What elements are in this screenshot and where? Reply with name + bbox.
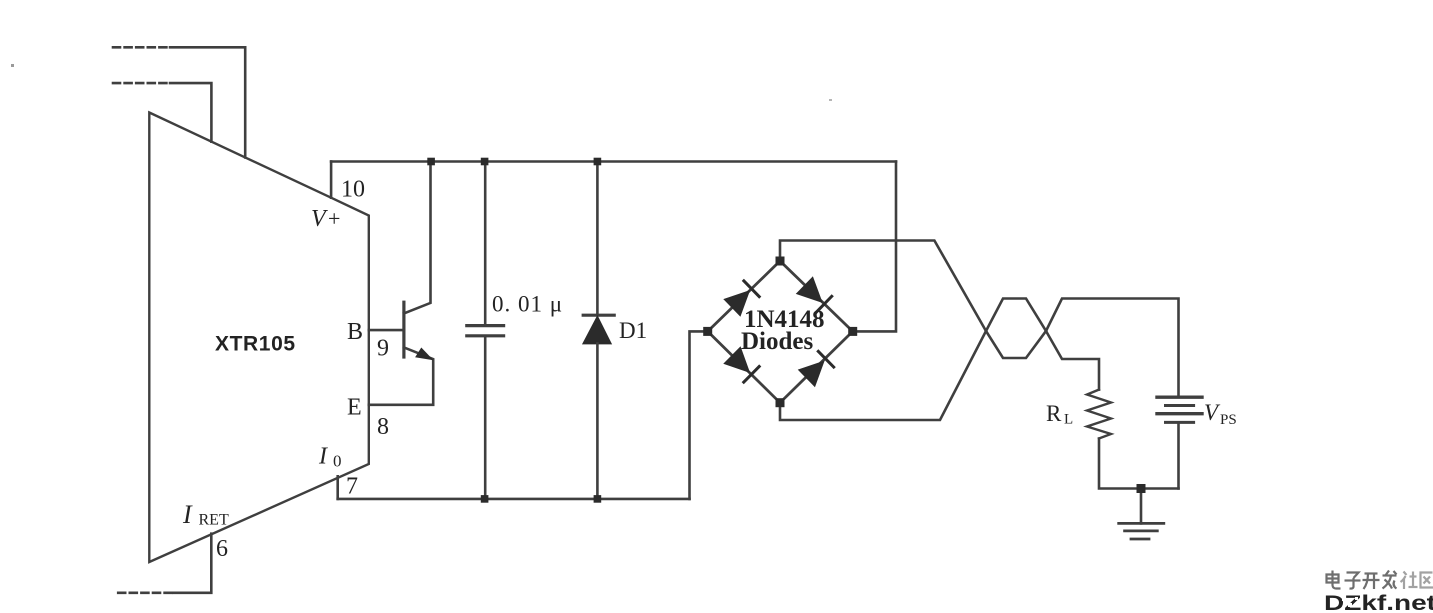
svg-text:10: 10 bbox=[341, 177, 365, 203]
svg-text:R: R bbox=[1046, 401, 1062, 426]
wire pin 6 lead down bbox=[174, 534, 212, 593]
bridge diode BR4 lower-right bbox=[798, 350, 835, 387]
capacitor C1 lower lead bbox=[484, 336, 487, 499]
wire pin 7 lead to bottom rail bbox=[336, 476, 339, 499]
glyph kai bbox=[1363, 574, 1380, 590]
svg-text:B: B bbox=[347, 319, 363, 345]
svg-text:0: 0 bbox=[333, 452, 342, 471]
ground stem bbox=[1140, 489, 1143, 524]
svg-text:0. 01 μ: 0. 01 μ bbox=[492, 292, 563, 317]
wire twist exit lower to load resistor bbox=[1046, 331, 1099, 390]
glyph she bbox=[1401, 572, 1418, 590]
bridge diamond edges bbox=[708, 261, 853, 403]
node junction collector/rail bbox=[427, 158, 435, 166]
wire sensor lead 2 solid to IC top edge bbox=[170, 83, 211, 142]
svg-text:9: 9 bbox=[377, 336, 389, 362]
wire twist exit upper to battery top bbox=[1046, 299, 1179, 398]
wire battery bottom lead bbox=[1177, 422, 1180, 488]
svg-text:I: I bbox=[182, 500, 193, 529]
node bridge right bbox=[848, 327, 857, 336]
wire V+ rail down to bridge right node bbox=[853, 162, 896, 332]
bridge diode BR2 upper-right bbox=[796, 276, 833, 313]
wire dashed sensor lead 2 bbox=[113, 82, 170, 85]
diode D1 cathode lead bbox=[596, 162, 599, 316]
watermark logo pixel pattern on Z bbox=[1342, 597, 1346, 601]
svg-text:E: E bbox=[347, 395, 362, 421]
ground bars bbox=[1119, 523, 1164, 539]
node bridge bottom bbox=[776, 398, 785, 407]
capacitor C1 upper lead bbox=[484, 162, 487, 326]
bridge diode BR3 lower-left bbox=[723, 346, 760, 383]
transistor Q1 emitter arrow bbox=[415, 348, 433, 361]
wire bridge top node to twist upper bbox=[780, 241, 986, 332]
wire bottom rail up to bridge left node bbox=[690, 331, 708, 499]
node junction D1/rail top bbox=[594, 158, 602, 166]
diode D1 cathode bar bbox=[583, 314, 614, 317]
wire bottom return rail bbox=[338, 498, 690, 501]
diode D1 triangle bbox=[583, 317, 611, 344]
bridge diode BR1 upper-left bbox=[723, 280, 760, 317]
node junction cap/rail top bbox=[481, 158, 489, 166]
node junction cap/rail bottom bbox=[481, 495, 489, 503]
svg-text:V: V bbox=[311, 206, 328, 232]
transistor Q1 collector bbox=[404, 162, 431, 314]
svg-text:I: I bbox=[318, 444, 328, 470]
glyph qu bbox=[1421, 573, 1433, 588]
svg-text:7: 7 bbox=[346, 474, 358, 500]
svg-text:XTR105: XTR105 bbox=[215, 333, 296, 356]
wire dashed sensor lead 1 (top) bbox=[113, 46, 170, 49]
wire bridge bottom node to twist lower bbox=[780, 331, 986, 420]
wire twist lens lower path bbox=[986, 331, 1046, 358]
resistor RL zigzag bbox=[1087, 390, 1111, 439]
svg-text:V: V bbox=[1204, 400, 1221, 425]
svg-text:Diodes: Diodes bbox=[741, 328, 814, 355]
wire pin 10 lead to V+ rail bbox=[330, 162, 333, 198]
diode D1 anode lead bbox=[596, 344, 599, 499]
svg-text:L: L bbox=[1064, 412, 1073, 428]
node junction ground bbox=[1137, 484, 1146, 493]
speckle bbox=[11, 64, 14, 67]
svg-text:D1: D1 bbox=[619, 318, 647, 343]
svg-text:8: 8 bbox=[377, 414, 389, 440]
node junction D1/rail bottom bbox=[594, 495, 602, 503]
glyph zi bbox=[1345, 573, 1361, 589]
wire pin B to base bbox=[369, 329, 404, 332]
wire V+ top rail bbox=[331, 160, 896, 163]
watermark logo text row 1 (simplified CJK strokes) bbox=[1327, 571, 1397, 590]
node bridge top bbox=[776, 257, 785, 266]
wire RL bottom lead bbox=[1099, 439, 1179, 489]
battery VPS plates bbox=[1157, 397, 1202, 414]
wire dashed sensor lead 3 (bottom) bbox=[115, 591, 172, 594]
transistor Q1 base bar bbox=[402, 302, 405, 357]
glyph fa bbox=[1383, 571, 1397, 589]
svg-text:6: 6 bbox=[216, 536, 228, 562]
svg-text:+: + bbox=[328, 206, 340, 231]
wire sensor lead 1 solid to IC top edge bbox=[170, 47, 245, 157]
op-amp U1 XTR105 body outline bbox=[149, 113, 368, 563]
svg-text:DZkf.net: DZkf.net bbox=[1324, 592, 1433, 613]
capacitor C1 plates bbox=[467, 326, 504, 336]
svg-text:PS: PS bbox=[1220, 412, 1237, 428]
svg-text:RET: RET bbox=[199, 512, 229, 529]
glyph dian bbox=[1327, 571, 1341, 589]
transistor Q1 emitter bbox=[369, 347, 433, 404]
node bridge left bbox=[703, 327, 712, 336]
wire twist lens upper path bbox=[986, 299, 1046, 332]
